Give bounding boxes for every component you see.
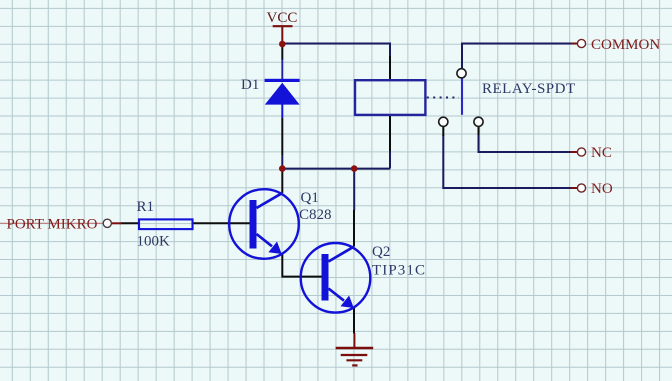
svg-text:RELAY-SPDT: RELAY-SPDT (482, 81, 576, 97)
svg-text:PORT MIKRO: PORT MIKRO (7, 217, 98, 233)
svg-text:C828: C828 (299, 207, 332, 223)
svg-text:TIP31C: TIP31C (372, 263, 426, 279)
svg-text:Q1: Q1 (301, 190, 319, 206)
svg-text:R1: R1 (137, 199, 155, 215)
svg-text:D1: D1 (241, 77, 259, 93)
svg-text:NO: NO (591, 181, 613, 197)
svg-text:NC: NC (591, 145, 612, 161)
svg-text:COMMON: COMMON (591, 37, 660, 53)
svg-text:100K: 100K (137, 234, 171, 250)
svg-text:VCC: VCC (267, 10, 298, 26)
svg-text:Q2: Q2 (372, 244, 390, 260)
